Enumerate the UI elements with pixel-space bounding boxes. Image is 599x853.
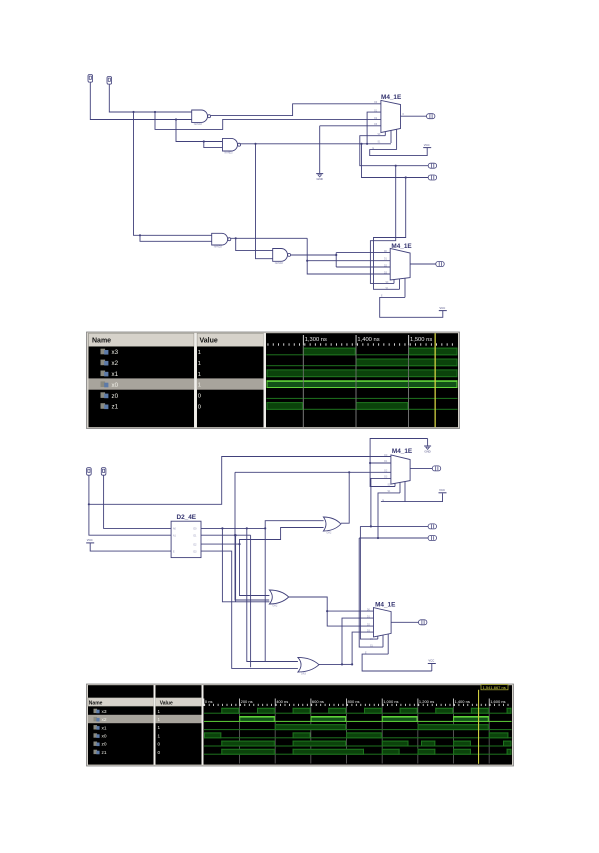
wire to mux1 D1 bbox=[367, 112, 381, 144]
svg-text:1: 1 bbox=[198, 383, 201, 389]
junction bbox=[370, 525, 372, 527]
svg-text:x2: x2 bbox=[112, 360, 119, 367]
junction bbox=[238, 543, 240, 545]
wire D0 to OR1 input A bbox=[201, 521, 324, 529]
junction bbox=[341, 663, 343, 665]
panel backgrounds 1 bbox=[89, 333, 195, 427]
decoder U7 D2_4E bbox=[171, 521, 201, 557]
wire VCC to decoder E bbox=[90, 543, 171, 551]
wire t1 to NAND1 input B bbox=[90, 82, 191, 119]
svg-text:Value: Value bbox=[200, 338, 218, 345]
wire mux3 E to VCC bbox=[381, 493, 443, 501]
svg-text:OR2: OR2 bbox=[326, 532, 332, 535]
window frame 2 bbox=[87, 684, 514, 766]
svg-text:600 ns: 600 ns bbox=[312, 699, 324, 704]
output terminal z0 bbox=[427, 114, 435, 119]
mux U12 M4_1E bbox=[374, 608, 392, 655]
junction bbox=[326, 610, 328, 612]
wire to mux2 D1 bbox=[307, 260, 390, 262]
wire mux4 output bbox=[391, 621, 418, 623]
or gate U11 bbox=[298, 657, 319, 675]
input terminal s0-pad-2 bbox=[428, 524, 436, 529]
svg-text:x2: x2 bbox=[102, 717, 107, 723]
input terminal s1-pad bbox=[428, 175, 436, 180]
wire rail to VCC bbox=[431, 664, 433, 671]
cursor time box bbox=[481, 685, 508, 690]
or gate U8 bbox=[323, 517, 341, 535]
input terminal x-bot-1 bbox=[87, 468, 92, 476]
input terminal x-top-1 bbox=[88, 75, 93, 83]
wire s1 to mux2 S1 bbox=[374, 178, 406, 290]
wire to ground bbox=[319, 126, 321, 173]
svg-text:M4_1E: M4_1E bbox=[381, 94, 402, 101]
junction bbox=[360, 143, 362, 145]
VCC bbox=[423, 143, 431, 148]
wire branch down bbox=[264, 528, 266, 661]
signal row x2 (window 2) bbox=[94, 717, 161, 723]
wire mux4 E to VCC rail bbox=[362, 654, 432, 671]
signal row z1 bbox=[101, 403, 201, 411]
signal row x0 (window 2) bbox=[94, 733, 161, 739]
wire NAND1 out to mux1 D0 bbox=[211, 104, 381, 116]
svg-text:VCC: VCC bbox=[428, 659, 434, 663]
wire mux2 E to VCC bbox=[380, 297, 443, 317]
time ruler window 2 bbox=[204, 704, 508, 706]
wire mux3 output bbox=[410, 467, 432, 469]
svg-text:1: 1 bbox=[198, 372, 201, 378]
waveform window 1 bbox=[87, 332, 460, 429]
svg-text:NAND2: NAND2 bbox=[225, 152, 234, 155]
mux U3 M4_1E bbox=[381, 100, 401, 149]
wire NAND2 out to mux1 S1 bbox=[240, 143, 391, 145]
wire t2 to NAND1 input A bbox=[109, 84, 191, 112]
svg-text:800 ns: 800 ns bbox=[348, 699, 360, 704]
wire to NAND4 input A bbox=[236, 238, 273, 250]
waveform window 2 bbox=[87, 684, 514, 766]
wire s0 to mux2 S0 bbox=[370, 166, 395, 284]
svg-text:x1: x1 bbox=[112, 371, 119, 378]
junction bbox=[235, 534, 237, 536]
wire to NAND2 input A bbox=[176, 120, 222, 142]
svg-text:VCC: VCC bbox=[439, 306, 445, 310]
svg-text:x3: x3 bbox=[112, 349, 119, 356]
header Name 2 bbox=[88, 698, 154, 706]
junction bbox=[405, 176, 407, 178]
wire OR2 out to mux4 D2 bbox=[289, 597, 374, 626]
svg-text:VCC: VCC bbox=[439, 488, 445, 492]
VCC bbox=[439, 306, 447, 311]
wire to mux3 S1 bbox=[378, 493, 400, 538]
svg-text:NAND2: NAND2 bbox=[194, 123, 203, 126]
junction bbox=[335, 254, 337, 256]
signal row z0 bbox=[101, 392, 201, 400]
output terminal z1 bbox=[436, 262, 444, 267]
header Value 2 bbox=[156, 698, 202, 706]
svg-text:1: 1 bbox=[198, 361, 201, 367]
svg-text:0: 0 bbox=[198, 405, 201, 411]
junction bbox=[246, 527, 248, 529]
wire branch bbox=[235, 535, 237, 602]
svg-text:1,200 ns: 1,200 ns bbox=[419, 699, 434, 704]
svg-text:1: 1 bbox=[198, 350, 201, 356]
signal row x1 bbox=[101, 371, 201, 379]
schematic 1 bbox=[88, 75, 447, 318]
svg-text:VCC: VCC bbox=[87, 538, 93, 542]
wire GND to mux3 S0 bbox=[370, 439, 428, 487]
wire to NAND3 input B bbox=[140, 235, 212, 241]
svg-text:400 ns: 400 ns bbox=[276, 699, 288, 704]
junction bbox=[369, 462, 371, 464]
header Value bbox=[197, 333, 264, 346]
svg-text:z0: z0 bbox=[102, 742, 107, 748]
selected row highlight x2 bbox=[88, 715, 202, 723]
panel backgrounds 2 bbox=[88, 685, 154, 764]
junction bbox=[175, 118, 177, 120]
gridlines window 2 bbox=[239, 706, 489, 764]
wire to terminal s1 bbox=[362, 144, 429, 178]
wave x1 bbox=[267, 369, 458, 377]
wire GND to mux1 D3 bbox=[320, 125, 381, 127]
selected row highlight x0 bbox=[89, 378, 264, 389]
svg-text:0 ns: 0 ns bbox=[205, 699, 213, 704]
signal row x3 (window 2) bbox=[94, 709, 161, 715]
wire decoder D1 bbox=[201, 534, 251, 536]
input terminal s0-pad bbox=[428, 163, 436, 168]
mux U6 M4_1E bbox=[390, 248, 410, 297]
wave x2 bbox=[267, 359, 458, 367]
wire to mux3 D1 bbox=[370, 462, 391, 464]
time ruler window 1 bbox=[268, 343, 453, 345]
wave z0 bbox=[267, 398, 458, 399]
wire D2 to OR1 input B bbox=[201, 528, 324, 545]
wire NAND4 out bbox=[291, 254, 337, 256]
output terminal z1-2 bbox=[419, 620, 427, 625]
panel separators bbox=[194, 333, 197, 427]
signal row x0 bbox=[101, 381, 201, 389]
wire to OR2 input B bbox=[222, 528, 269, 601]
junction bbox=[88, 503, 90, 505]
svg-text:Name: Name bbox=[92, 338, 111, 345]
nand gate U4 bbox=[212, 233, 231, 248]
mux U9 M4_1E bbox=[391, 455, 410, 502]
junction bbox=[351, 663, 353, 665]
svg-text:OR2: OR2 bbox=[272, 605, 278, 608]
wire bbox=[342, 663, 352, 665]
svg-text:1,400 ns: 1,400 ns bbox=[455, 699, 470, 704]
header Name bbox=[89, 333, 195, 346]
junction bbox=[139, 234, 141, 236]
signal row x1 (window 2) bbox=[94, 725, 161, 731]
wire mux1 output bbox=[401, 115, 427, 117]
signal row z0 (window 2) bbox=[94, 742, 161, 748]
wave x2-2 bbox=[204, 716, 512, 722]
window frame 1 bbox=[87, 332, 460, 429]
junction bbox=[235, 237, 237, 239]
wire to mux4 D3 bbox=[352, 632, 373, 664]
svg-text:M4_1E: M4_1E bbox=[375, 601, 396, 608]
or gate U10 bbox=[269, 590, 288, 608]
nand gate U1 bbox=[192, 110, 211, 126]
svg-text:x3: x3 bbox=[102, 709, 107, 715]
cursor line window 2 bbox=[478, 690, 479, 764]
svg-text:z0: z0 bbox=[112, 393, 119, 400]
junction bbox=[366, 143, 368, 145]
wire to mux4 D1 bbox=[342, 618, 374, 664]
wire to mux1 D2 bbox=[155, 112, 381, 129]
wire OR1 out to D2 line bbox=[341, 472, 349, 523]
wire mux2 output bbox=[410, 263, 436, 265]
ground bbox=[316, 174, 323, 182]
VCC bbox=[439, 488, 447, 493]
nand gate U5 bbox=[273, 249, 291, 265]
junction bbox=[234, 534, 236, 536]
wave x0 bbox=[267, 380, 458, 388]
wire to OR3 input A bbox=[247, 528, 298, 661]
wire mux1 S0 to terminal s0 bbox=[360, 136, 428, 166]
gridlines window 1 bbox=[303, 346, 409, 427]
wire to mux2 D2 bbox=[336, 266, 390, 268]
junction bbox=[306, 260, 308, 262]
wire s1 line bbox=[359, 537, 428, 539]
svg-text:1,600 ns: 1,600 ns bbox=[490, 699, 505, 704]
nand gate U2 bbox=[223, 138, 241, 154]
wire mux1 E to VCC bbox=[370, 148, 428, 156]
wave x1-2 bbox=[204, 724, 512, 730]
wire to NAND3 input A bbox=[134, 112, 212, 235]
wire D3 to OR3 input B bbox=[201, 551, 298, 668]
svg-text:D2_4E: D2_4E bbox=[177, 514, 197, 521]
panel separators 2 bbox=[154, 685, 156, 764]
svg-text:200 ns: 200 ns bbox=[241, 699, 253, 704]
junction bbox=[377, 537, 379, 539]
cursor line window 1 bbox=[435, 333, 436, 427]
wire s0 line bbox=[360, 525, 428, 527]
wire to OR2 input B bbox=[235, 472, 269, 600]
wire to NAND2 input B bbox=[204, 142, 223, 148]
gridlines window 1 bbox=[303, 346, 409, 427]
wave z0-2 bbox=[204, 741, 512, 747]
wave x0-2 bbox=[204, 732, 512, 738]
svg-text:NAND2: NAND2 bbox=[275, 262, 284, 265]
wire branch bbox=[250, 535, 252, 667]
svg-text:Name: Name bbox=[89, 700, 103, 706]
svg-text:GND: GND bbox=[317, 177, 323, 181]
wire NAND3 out bbox=[231, 237, 307, 239]
junction bbox=[132, 111, 134, 113]
svg-text:1,000 ns: 1,000 ns bbox=[383, 699, 398, 704]
wire t1 to mux3 D0 bbox=[89, 457, 391, 505]
wire branch bbox=[335, 253, 337, 267]
svg-text:1,541.667 ns: 1,541.667 ns bbox=[483, 685, 506, 690]
svg-text:x0: x0 bbox=[102, 734, 107, 740]
output terminal z0-2 bbox=[432, 466, 440, 471]
wave z1 bbox=[267, 402, 458, 410]
input terminal s1-pad-2 bbox=[428, 536, 436, 541]
wire to mux2 D0 bbox=[336, 252, 390, 254]
svg-text:VCC: VCC bbox=[424, 143, 430, 147]
svg-text:z1: z1 bbox=[112, 404, 119, 411]
junction bbox=[264, 527, 266, 529]
schematic 2 bbox=[86, 439, 446, 676]
wire to OR2 input A bbox=[240, 544, 270, 595]
wire to mux3 D3 bbox=[371, 478, 391, 526]
junction bbox=[348, 471, 350, 473]
wire to mux4 D0 bbox=[327, 610, 373, 612]
wire OR3 out bbox=[319, 663, 342, 665]
junction bbox=[395, 165, 397, 167]
wire t2 to decoder A0 bbox=[104, 475, 172, 528]
wire to NAND4 input B bbox=[256, 144, 273, 259]
svg-text:x1: x1 bbox=[102, 725, 107, 731]
svg-text:NAND2: NAND2 bbox=[214, 246, 223, 249]
signal row z1 (window 2) bbox=[94, 750, 161, 756]
svg-text:GND: GND bbox=[424, 450, 430, 454]
wire gnd stem bbox=[427, 439, 429, 446]
junction bbox=[221, 527, 223, 529]
svg-text:1,400 ns: 1,400 ns bbox=[357, 337, 379, 343]
junction bbox=[254, 143, 256, 145]
signal row x3 bbox=[101, 349, 201, 357]
VCC bbox=[86, 538, 94, 543]
svg-text:M4_1E: M4_1E bbox=[392, 448, 413, 455]
signal row x2 bbox=[101, 360, 201, 368]
svg-text:Value: Value bbox=[160, 700, 173, 706]
svg-text:z1: z1 bbox=[102, 750, 107, 756]
wire to mux2 D3 bbox=[307, 238, 390, 274]
wave x3-2 bbox=[204, 708, 512, 714]
wave z1-2 bbox=[204, 749, 512, 755]
wire s0 to mux4 S0 bbox=[360, 526, 377, 639]
wire s1 to mux4 S1 bbox=[359, 538, 383, 647]
svg-text:x0: x0 bbox=[112, 382, 119, 389]
wire t1 to decoder A1 bbox=[89, 475, 171, 535]
svg-text:1,300 ns: 1,300 ns bbox=[305, 337, 327, 343]
input terminal x-top-2 bbox=[107, 77, 112, 85]
junction bbox=[154, 111, 156, 113]
wave x3 bbox=[267, 348, 458, 356]
ground bbox=[424, 446, 431, 454]
input terminal x-bot-2 bbox=[101, 468, 106, 476]
svg-text:OR3: OR3 bbox=[301, 673, 307, 676]
svg-text:0: 0 bbox=[198, 394, 201, 400]
svg-text:1,500 ns: 1,500 ns bbox=[410, 337, 432, 343]
junction bbox=[203, 140, 205, 142]
VCC bbox=[428, 659, 436, 664]
wire to mux3 D2 bbox=[235, 471, 391, 473]
